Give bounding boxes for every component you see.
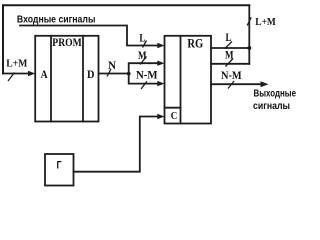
block PROM	[35, 36, 98, 122]
svg-text:A: A	[41, 67, 48, 81]
bus slash L+M feedback	[247, 17, 251, 25]
block RG	[165, 36, 212, 124]
svg-text:Выходные: Выходные	[254, 88, 297, 99]
wire RG output N-M	[211, 83, 261, 85]
svg-text:N: N	[108, 58, 116, 72]
bus slash M input	[140, 57, 147, 65]
bus slash M output	[226, 59, 234, 67]
bus slash L output	[225, 42, 233, 49]
bus slash L+M input	[8, 73, 15, 82]
wire input signals line into RG L	[20, 26, 160, 46]
wire N-M branch into RG	[129, 74, 160, 84]
wire RG output M	[211, 63, 249, 65]
svg-text:N-M: N-M	[221, 68, 242, 82]
svg-text:RG: RG	[187, 36, 203, 50]
svg-text:сигналы: сигналы	[253, 101, 290, 112]
svg-text:C: C	[171, 110, 178, 122]
wire M branch into RG	[129, 63, 160, 73]
wire L+M input into PROM A	[3, 73, 30, 75]
bus slash N	[107, 69, 111, 77]
arrowhead clock into C	[157, 114, 164, 119]
wire N from PROM D to junction	[99, 73, 129, 75]
junction node L feedback	[247, 46, 251, 50]
svg-text:D: D	[87, 67, 95, 81]
svg-text:PROM: PROM	[52, 35, 82, 49]
svg-text:Входные сигналы: Входные сигналы	[17, 14, 96, 25]
svg-text:M: M	[225, 47, 234, 61]
svg-text:M: M	[138, 48, 147, 62]
wire RG output L	[211, 47, 249, 49]
arrowhead output N-M	[261, 81, 269, 87]
svg-text:L+M: L+M	[6, 58, 28, 70]
wire clock from G to RG C	[74, 117, 161, 172]
block G generator	[45, 154, 74, 186]
bus slash N-M input	[141, 81, 147, 89]
arrowhead M into RG	[157, 61, 164, 66]
wire feedback right vertical	[248, 6, 250, 64]
arrowhead L into RG	[157, 43, 164, 48]
svg-text:N-M: N-M	[136, 67, 158, 81]
wire feedback top line	[3, 5, 249, 73]
svg-text:L+M: L+M	[255, 16, 276, 28]
bus slash L input	[143, 41, 147, 48]
svg-text:Г: Г	[57, 159, 63, 171]
junction node N split	[127, 72, 131, 76]
arrowhead into PROM A	[28, 71, 35, 76]
arrowhead N-M into RG	[157, 81, 164, 86]
svg-text:L: L	[226, 30, 232, 44]
bus slash N-M output	[228, 81, 234, 89]
svg-text:L: L	[139, 30, 145, 44]
